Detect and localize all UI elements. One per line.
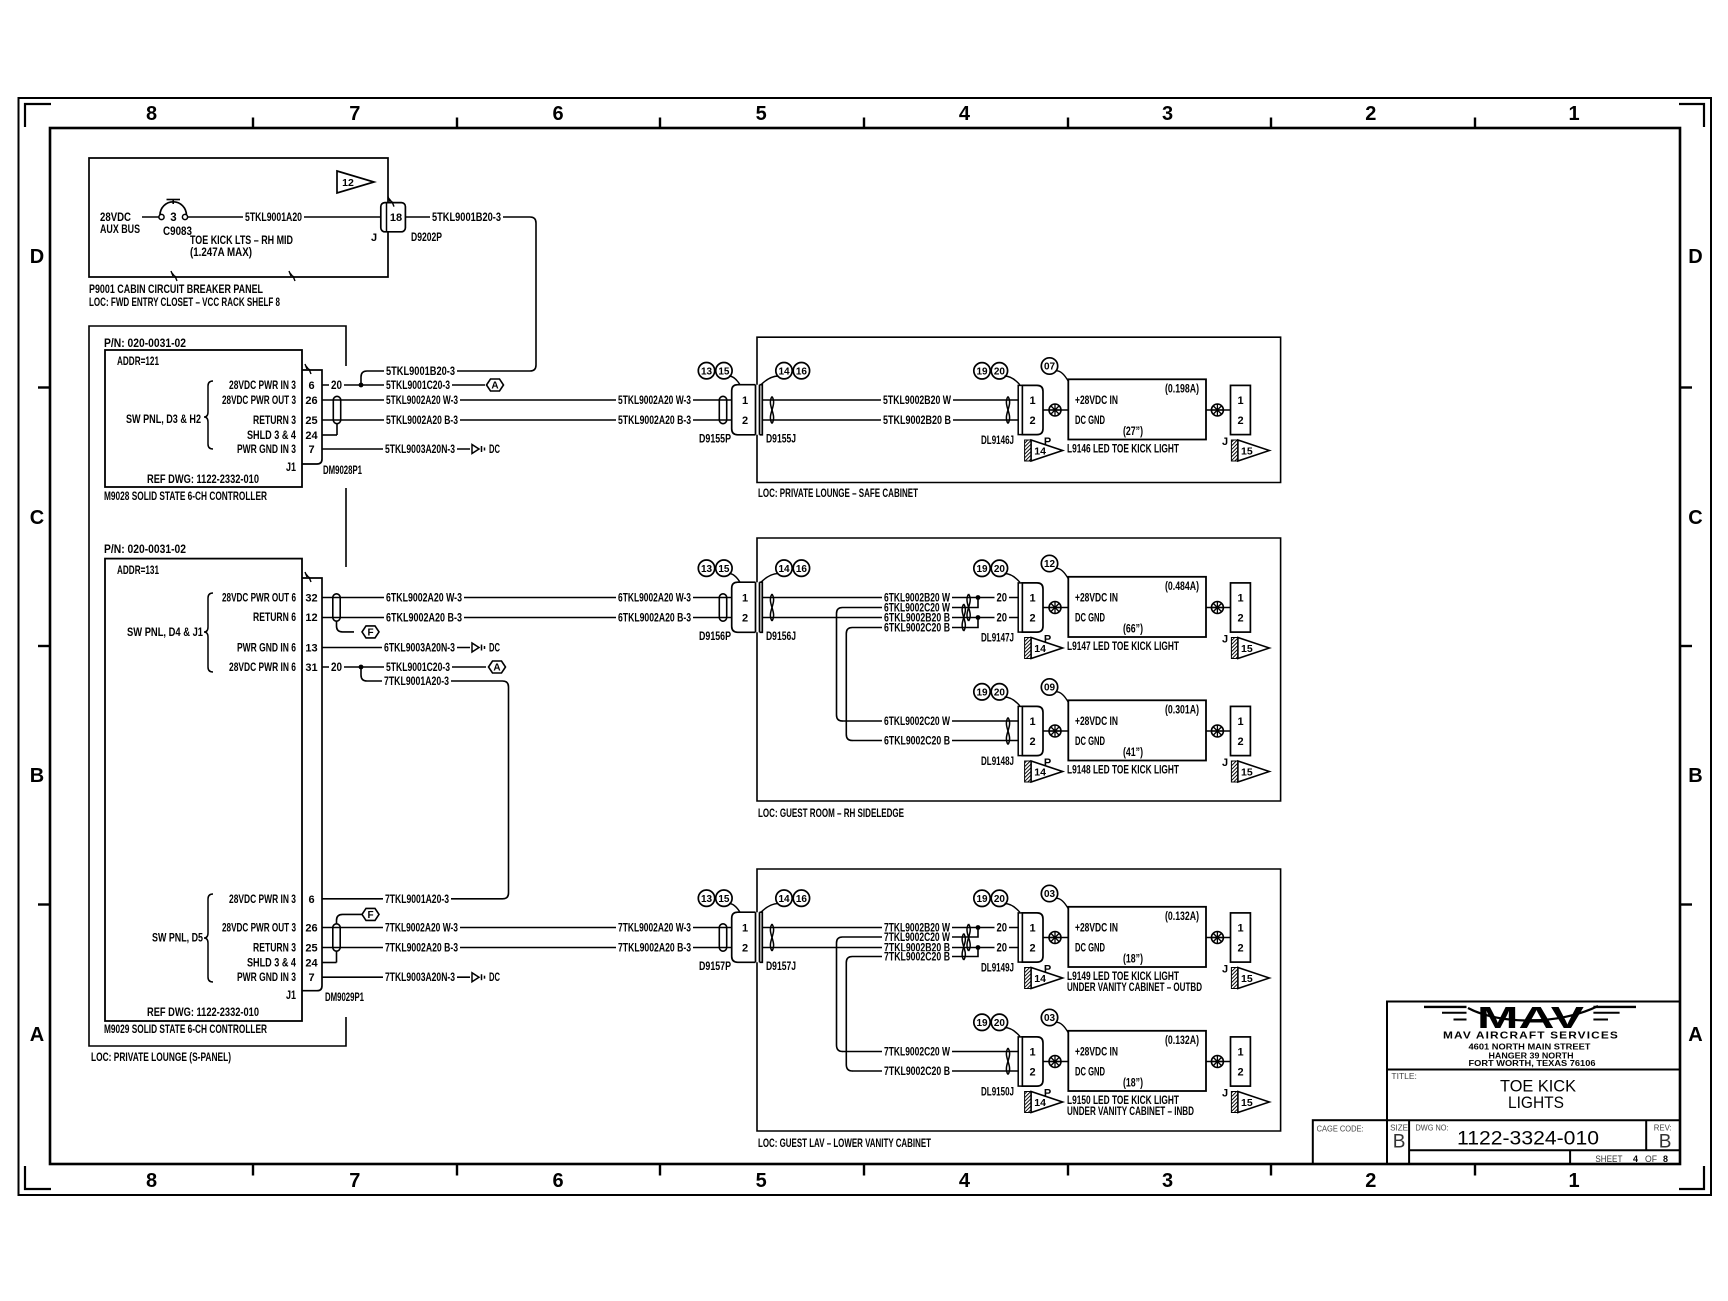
svg-text:SW PNL, D3 & H2: SW PNL, D3 & H2 [126, 414, 201, 426]
svg-text:8: 8 [146, 103, 157, 125]
svg-text:M9028 SOLID STATE 6-CH CONTROL: M9028 SOLID STATE 6-CH CONTROLLER [104, 491, 267, 503]
drawing title TOE KICK LIGHTS [1391, 1071, 1576, 1112]
splice L9150 input [1049, 1056, 1061, 1068]
light name label L9146 [1067, 443, 1179, 455]
svg-text:J: J [1222, 436, 1228, 448]
svg-text:TOE KICK LTS – RH MID: TOE KICK LTS – RH MID [190, 235, 293, 247]
junction node pin31 [359, 665, 364, 670]
svg-text:D9202P: D9202P [411, 232, 442, 244]
wire 5TKL9002B20 B [762, 415, 1018, 427]
svg-text:L9149 LED TOE KICK LIGHT: L9149 LED TOE KICK LIGHT [1067, 971, 1179, 983]
svg-text:13: 13 [701, 366, 713, 377]
connector L9146 J side [1222, 385, 1250, 448]
svg-text:5TKL9001C20-3: 5TKL9001C20-3 [386, 662, 450, 674]
svg-text:20: 20 [994, 894, 1006, 905]
svg-text:5TKL9002A20 W-3: 5TKL9002A20 W-3 [386, 395, 458, 407]
svg-text:LOC: PRIVATE LOUNGE (S-PANEL): LOC: PRIVATE LOUNGE (S-PANEL) [91, 1052, 231, 1064]
svg-text:6: 6 [552, 103, 563, 125]
svg-text:5TKL9002A20 W-3: 5TKL9002A20 W-3 [618, 395, 691, 407]
identification circle 12 L9147 [1041, 555, 1068, 579]
svg-text:PWR GND IN 3: PWR GND IN 3 [237, 444, 296, 456]
svg-text:RETURN 6: RETURN 6 [253, 612, 296, 624]
svg-text:2: 2 [742, 613, 748, 625]
circuit breaker C9083 3A [159, 200, 192, 239]
svg-text:1: 1 [1237, 923, 1243, 935]
svg-text:7TKL9003A20N-3: 7TKL9003A20N-3 [385, 972, 455, 984]
svg-text:12: 12 [305, 612, 317, 624]
wire 7TKL9002B20 W [762, 922, 995, 934]
connector D9202P pin 18 [371, 197, 442, 244]
junction node W pair [976, 595, 981, 600]
shield of pair 6TKL9002A20 [333, 594, 354, 632]
svg-text:REF DWG: 1122-2332-010: REF DWG: 1122-2332-010 [147, 1007, 259, 1019]
svg-text:DL9150J: DL9150J [981, 1087, 1014, 1099]
wire pin31 with gauge 20 [322, 662, 486, 674]
svg-text:20: 20 [331, 662, 342, 674]
svg-text:+28VDC IN: +28VDC IN [1075, 593, 1118, 605]
svg-text:13: 13 [305, 643, 317, 655]
svg-text:19: 19 [976, 366, 988, 377]
svg-text:J: J [371, 232, 377, 244]
wire 5TKL9001B20-3 from D9202P [405, 212, 536, 371]
svg-text:AUX BUS: AUX BUS [100, 224, 140, 236]
wire 6TKL9002B20 W [762, 592, 995, 604]
svg-text:J1: J1 [286, 462, 296, 474]
wire 6TKL9002B20 B [762, 612, 995, 624]
svg-text:20: 20 [994, 564, 1006, 575]
svg-text:1: 1 [1029, 593, 1035, 605]
reference circles 19 20 DL9149J [974, 890, 1020, 912]
svg-text:4: 4 [1633, 1154, 1639, 1165]
shield termination flag 14 L9150 [1025, 1092, 1063, 1113]
controller M9029 D5 signal labels [222, 894, 296, 984]
svg-text:5TKL9002B20 B: 5TKL9002B20 B [883, 415, 951, 427]
svg-text:5TKL9003A20N-3: 5TKL9003A20N-3 [385, 444, 455, 456]
svg-text:6: 6 [552, 1170, 563, 1192]
svg-text:5TKL9002B20 W: 5TKL9002B20 W [883, 395, 951, 407]
svg-text:DC: DC [489, 972, 500, 984]
wire 5TKL9001C20-3 label lower [384, 662, 452, 673]
svg-text:15: 15 [718, 894, 730, 905]
connector D9155P D9155J [699, 385, 796, 446]
svg-text:14: 14 [1034, 973, 1046, 985]
junction node 5TKL9001 nets [359, 383, 364, 388]
svg-text:(0.198A): (0.198A) [1165, 384, 1199, 396]
svg-text:28VDC PWR OUT 6: 28VDC PWR OUT 6 [222, 592, 296, 604]
svg-text:DL9148J: DL9148J [981, 756, 1014, 768]
wire 5TKL9001B20-3 branch up [361, 366, 530, 385]
svg-text:7TKL9002A20 W-3: 7TKL9002A20 W-3 [385, 923, 458, 935]
svg-text:20: 20 [994, 1018, 1006, 1029]
connector DL9148J [981, 706, 1043, 768]
svg-text:20: 20 [997, 943, 1008, 955]
svg-text:1: 1 [1029, 923, 1035, 935]
company name and address [1443, 1030, 1619, 1069]
svg-text:6TKL9002C20 B: 6TKL9002C20 B [884, 623, 950, 635]
wire pin25 5TKL9002A20 B-3 [322, 415, 732, 427]
svg-text:A: A [1688, 1024, 1702, 1046]
svg-text:LOC: PRIVATE LOUNGE – SAFE CAB: LOC: PRIVATE LOUNGE – SAFE CABINET [758, 488, 918, 500]
svg-text:5TKL9001B20-3: 5TKL9001B20-3 [432, 212, 501, 224]
reference circles 13 15 D9155P [698, 363, 740, 385]
svg-text:8: 8 [146, 1170, 157, 1192]
svg-text:1: 1 [1568, 1170, 1579, 1192]
equipment rack enclosure PRIVATE LOUNGE S-PANEL [89, 326, 346, 1046]
svg-text:09: 09 [1044, 683, 1056, 694]
svg-text:5TKL9002A20 B-3: 5TKL9002A20 B-3 [386, 415, 458, 427]
connector D9157P D9157J [699, 912, 796, 973]
svg-text:P/N: 020-0031-02: P/N: 020-0031-02 [104, 338, 186, 350]
LED light L9146 box [1068, 379, 1206, 439]
svg-text:D: D [30, 246, 44, 268]
svg-text:F: F [367, 628, 373, 639]
svg-text:1: 1 [742, 395, 748, 407]
svg-text:LOC: GUEST LAV – LOWER VANITY: LOC: GUEST LAV – LOWER VANITY CABINET [758, 1138, 931, 1150]
svg-text:3: 3 [1162, 1170, 1173, 1192]
svg-text:2: 2 [1029, 943, 1035, 955]
shield termination flag 15 L9147 [1231, 638, 1269, 659]
shield termination flag 15 L9149 [1231, 968, 1269, 989]
svg-text:6: 6 [308, 894, 314, 906]
reference circles 14 16 D9155J [761, 363, 810, 385]
svg-text:D9155J: D9155J [766, 433, 796, 445]
size cell B [1390, 1122, 1408, 1152]
svg-text:16: 16 [796, 564, 808, 575]
svg-text:L9148 LED TOE KICK LIGHT: L9148 LED TOE KICK LIGHT [1067, 764, 1179, 776]
svg-text:14: 14 [778, 564, 790, 575]
svg-text:OF: OF [1645, 1154, 1657, 1164]
reference circles 19 20 DL9148J [974, 684, 1020, 706]
svg-text:DWG NO:: DWG NO: [1416, 1122, 1449, 1132]
svg-text:FORT WORTH, TEXAS 76106: FORT WORTH, TEXAS 76106 [1469, 1059, 1597, 1068]
svg-text:7TKL9001A20-3: 7TKL9001A20-3 [384, 676, 449, 688]
border frame inner [50, 128, 1680, 1164]
light name label L9147 [1067, 641, 1179, 653]
splice L9149 input [1049, 932, 1061, 944]
svg-text:6TKL9003A20N-3: 6TKL9003A20N-3 [384, 643, 455, 655]
svg-text:2: 2 [1029, 613, 1035, 625]
svg-text:16: 16 [796, 894, 808, 905]
wire pin26 5TKL9002A20 W-3 [322, 395, 732, 407]
svg-text:5TKL9001A20: 5TKL9001A20 [245, 212, 302, 224]
light name label L9148 [1067, 764, 1179, 776]
node 28VDC AUX BUS [100, 212, 140, 236]
svg-text:(66”): (66”) [1123, 624, 1143, 636]
svg-text:SW PNL, D4 & J1: SW PNL, D4 & J1 [127, 627, 203, 639]
svg-text:L9146 LED TOE KICK LIGHT: L9146 LED TOE KICK LIGHT [1067, 443, 1179, 455]
splice L9146 input [1049, 404, 1061, 416]
svg-text:20: 20 [997, 613, 1008, 625]
svg-text:7: 7 [349, 1170, 360, 1192]
breaker load description [190, 235, 293, 259]
wire 6TKL9002C20 B riser [846, 618, 978, 735]
junction node B pair lav [976, 945, 981, 950]
svg-text:1: 1 [1237, 716, 1243, 728]
svg-text:19: 19 [976, 564, 988, 575]
DC ground symbol M9028 [472, 444, 500, 456]
LED light L9147 box [1068, 577, 1206, 637]
wire 6TKL9002C20 W to DL9148J [837, 715, 1019, 728]
svg-text:14: 14 [1034, 1097, 1046, 1109]
svg-text:B: B [1688, 765, 1702, 787]
svg-text:SHLD 3 & 4: SHLD 3 & 4 [247, 430, 296, 442]
svg-text:2: 2 [1365, 103, 1376, 125]
svg-text:L9150 LED TOE KICK LIGHT: L9150 LED TOE KICK LIGHT [1067, 1095, 1179, 1107]
svg-text:14: 14 [1034, 767, 1046, 779]
shield termination flag 14 L9147 [1025, 638, 1063, 659]
connector DL9149J [981, 913, 1043, 975]
brace SW PNL D4 and J1 group [127, 593, 213, 672]
connector DM9029P1 labels J1 [286, 990, 364, 1004]
wire pin7 7TKL9003A20N-3 to DC ground [322, 972, 470, 984]
svg-text:6TKL9002A20 B-3: 6TKL9002A20 B-3 [618, 613, 691, 625]
svg-text:14: 14 [1034, 643, 1046, 655]
svg-text:+28VDC IN: +28VDC IN [1075, 395, 1118, 407]
rev cell B [1654, 1122, 1672, 1152]
controller M9029 D4 J1 signal labels [222, 592, 296, 674]
svg-text:12: 12 [1044, 559, 1056, 570]
svg-text:28VDC PWR IN 3: 28VDC PWR IN 3 [229, 894, 296, 906]
svg-text:14: 14 [1034, 446, 1046, 458]
svg-text:16: 16 [796, 366, 808, 377]
svg-text:20: 20 [997, 923, 1008, 935]
reference circles 13 15 D9156P [698, 560, 740, 582]
wire pin7 5TKL9003A20N-3 to DC ground [322, 444, 470, 456]
DC ground symbol M9029 pin7 [472, 972, 500, 984]
identification circle 03 L9149 [1041, 885, 1068, 909]
svg-text:(0.132A): (0.132A) [1165, 1035, 1199, 1047]
svg-text:D9157P: D9157P [699, 961, 731, 973]
wire 7TKL9002B20 B [762, 942, 995, 954]
wire gauge 20 to DL9149J pin2 [995, 942, 1019, 954]
svg-text:J: J [1222, 1088, 1228, 1100]
connector L9148 J side [1222, 706, 1250, 769]
svg-text:19: 19 [976, 894, 988, 905]
svg-text:(27”): (27”) [1123, 426, 1143, 438]
svg-text:1122-3324-010: 1122-3324-010 [1457, 1129, 1599, 1150]
svg-text:31: 31 [305, 662, 317, 674]
wire pin26 7TKL9002A20 W-3 [322, 922, 732, 934]
twisted pairs guest room fan-in [962, 604, 965, 631]
svg-text:DL9146J: DL9146J [981, 435, 1014, 447]
svg-text:A: A [491, 381, 498, 392]
svg-text:2: 2 [1029, 415, 1035, 427]
svg-text:20: 20 [994, 366, 1006, 377]
reference circles 13 15 D9157P [698, 890, 740, 912]
connector DM9028P1 body [302, 364, 322, 464]
connector D9156P D9156J [699, 582, 796, 643]
svg-text:19: 19 [976, 1018, 988, 1029]
svg-text:TITLE:: TITLE: [1391, 1071, 1417, 1081]
wire 5TKL9002B20 W [762, 395, 1018, 407]
splice L9146 output [1211, 404, 1223, 416]
svg-text:03: 03 [1044, 1013, 1056, 1024]
svg-text:26: 26 [305, 395, 317, 407]
svg-text:7TKL9001A20-3: 7TKL9001A20-3 [385, 894, 449, 906]
wire 5TKL9001C20-3 label [384, 380, 452, 391]
svg-text:24: 24 [305, 958, 318, 970]
svg-text:2: 2 [1237, 1067, 1243, 1079]
svg-text:15: 15 [1241, 973, 1253, 985]
twisted pair D9156J side [770, 594, 773, 621]
svg-text:D9156J: D9156J [766, 631, 796, 643]
wire gauge 20 to DL9147J pin2 [995, 612, 1019, 624]
svg-text:C: C [30, 507, 44, 529]
svg-text:7: 7 [308, 444, 314, 456]
splice L9148 output [1211, 725, 1223, 737]
connector L9149 J side [1222, 913, 1250, 976]
svg-text:2: 2 [742, 943, 748, 955]
svg-text:2: 2 [1029, 1067, 1035, 1079]
svg-text:DC: DC [489, 643, 500, 655]
svg-text:7TKL9002C20 B: 7TKL9002C20 B [884, 1066, 950, 1078]
svg-text:RETURN 3: RETURN 3 [253, 943, 296, 955]
svg-text:REF DWG: 1122-2332-010: REF DWG: 1122-2332-010 [147, 474, 259, 486]
DC ground symbol M9029 [472, 643, 500, 655]
svg-text:SHLD 3 & 4: SHLD 3 & 4 [247, 958, 296, 970]
off-sheet flag A upper [487, 379, 504, 391]
controller M9028 signal name labels [222, 380, 296, 456]
twisted pair D9157J side [770, 924, 773, 951]
wire 6TKL9002C20 B to DL9148J [846, 735, 1018, 748]
connector L9150 J side [1222, 1037, 1250, 1100]
svg-text:(0.132A): (0.132A) [1165, 911, 1199, 923]
svg-text:19: 19 [976, 687, 988, 698]
location box GUEST ROOM RH SIDELEDGE [757, 538, 1281, 801]
svg-text:28VDC PWR OUT 3: 28VDC PWR OUT 3 [222, 923, 296, 935]
svg-text:13: 13 [701, 894, 713, 905]
LED light L9148 box [1068, 700, 1206, 760]
svg-text:12: 12 [342, 177, 354, 189]
company logo MAV [1424, 1000, 1636, 1035]
svg-text:LIGHTS: LIGHTS [1508, 1093, 1564, 1112]
svg-text:5: 5 [756, 1170, 767, 1192]
reference circles 19 20 DL9146J [974, 363, 1020, 385]
shield termination flag 14 L9149 [1025, 968, 1063, 989]
svg-text:7TKL9002A20 B-3: 7TKL9002A20 B-3 [385, 943, 458, 955]
svg-text:D9157J: D9157J [766, 961, 796, 973]
svg-text:5TKL9002A20 B-3: 5TKL9002A20 B-3 [618, 415, 691, 427]
svg-text:7: 7 [349, 103, 360, 125]
svg-text:8: 8 [1663, 1154, 1668, 1165]
wire L9149 output with splice [1206, 937, 1231, 939]
svg-text:5: 5 [756, 103, 767, 125]
twisted pair before DL9146J [1006, 397, 1009, 424]
svg-text:15: 15 [1241, 643, 1253, 655]
svg-text:7TKL9002C20 B: 7TKL9002C20 B [884, 952, 950, 964]
svg-text:1: 1 [1568, 103, 1579, 125]
wire 6TKL9002C20 W riser [837, 598, 979, 716]
svg-text:14: 14 [778, 366, 790, 377]
svg-text:18: 18 [390, 212, 402, 224]
svg-text:03: 03 [1044, 889, 1056, 900]
svg-text:5TKL9001C20-3: 5TKL9001C20-3 [386, 380, 450, 392]
svg-text:28VDC PWR IN 6: 28VDC PWR IN 6 [229, 662, 296, 674]
wire L9150 input with splice [1043, 1061, 1068, 1063]
wire 7TKL9002C20 W riser [837, 928, 979, 1046]
circuit breaker panel P9001 box [89, 158, 388, 281]
brace SW PNL D3 and H2 group [126, 381, 213, 449]
wire L9148 input with splice [1043, 730, 1068, 732]
svg-text:DC GND: DC GND [1075, 736, 1105, 748]
wire 5TKL9001A20 [188, 212, 383, 224]
controller M9029 box [105, 559, 302, 1021]
svg-text:ADDR=131: ADDR=131 [117, 565, 159, 577]
svg-text:4601 NORTH MAIN STREET: 4601 NORTH MAIN STREET [1469, 1043, 1591, 1052]
wire 7TKL9002C20 B to DL9150J [846, 1065, 1018, 1079]
svg-text:1: 1 [1237, 1047, 1243, 1059]
svg-text:LOC: FWD ENTRY CLOSET – VCC RA: LOC: FWD ENTRY CLOSET – VCC RACK SHELF 8 [89, 297, 280, 309]
svg-text:25: 25 [305, 415, 317, 427]
svg-text:7TKL9002C20 W: 7TKL9002C20 W [884, 1047, 950, 1059]
sheet-reference flag 12 [337, 171, 374, 193]
svg-text:D9155P: D9155P [699, 433, 731, 445]
connector L9147 J side [1222, 583, 1250, 646]
panel name label P9001 [89, 284, 280, 309]
shield flag F lower [337, 908, 380, 924]
splice L9150 output [1211, 1056, 1223, 1068]
svg-text:CAGE CODE:: CAGE CODE: [1317, 1124, 1364, 1134]
shield termination flag 15 L9146 [1231, 440, 1269, 461]
svg-text:B: B [1393, 1131, 1406, 1152]
svg-text:J: J [1222, 757, 1228, 769]
svg-text:5TKL9001B20-3: 5TKL9001B20-3 [386, 366, 455, 378]
svg-text:A: A [493, 663, 500, 674]
shield capsule D9156P side [719, 594, 726, 621]
title block frame [1313, 1002, 1680, 1165]
wire 7TKL9001A20-3 jumper pin31 to pin6 [322, 667, 509, 906]
svg-text:2: 2 [1365, 1170, 1376, 1192]
reference circles 14 16 D9156J [761, 560, 810, 582]
svg-text:(41”): (41”) [1123, 747, 1143, 759]
svg-text:DM9029P1: DM9029P1 [325, 992, 364, 1004]
svg-text:2: 2 [1237, 736, 1243, 748]
svg-text:UNDER VANITY CABINET – INBD: UNDER VANITY CABINET – INBD [1067, 1106, 1194, 1118]
svg-text:15: 15 [1241, 446, 1253, 458]
svg-text:D9156P: D9156P [699, 631, 731, 643]
wire L9149 input with splice [1043, 937, 1068, 939]
shield termination flag 14 L9148 [1025, 761, 1063, 782]
svg-text:20: 20 [997, 593, 1008, 605]
svg-text:A: A [30, 1024, 44, 1046]
svg-text:07: 07 [1044, 362, 1056, 373]
connector DM9028P1 labels J1 [286, 462, 362, 477]
off-sheet flag A lower [489, 661, 506, 673]
svg-text:1: 1 [1237, 395, 1243, 407]
svg-text:(1.247A MAX): (1.247A MAX) [190, 247, 252, 259]
wire pin32 6TKL9002A20 W-3 [322, 592, 732, 604]
svg-text:(0.301A): (0.301A) [1165, 705, 1199, 717]
light name label L9150 [1067, 1095, 1194, 1118]
wire 7TKL9002C20 B riser [846, 948, 978, 1065]
svg-text:M9029 SOLID STATE 6-CH CONTROL: M9029 SOLID STATE 6-CH CONTROLLER [104, 1024, 267, 1036]
wire pin12 6TKL9002A20 B-3 [322, 612, 732, 624]
svg-text:7TKL9002A20 B-3: 7TKL9002A20 B-3 [618, 943, 691, 955]
shield termination flag 14 L9146 [1025, 440, 1063, 461]
wire pin25 7TKL9002A20 B-3 [322, 942, 732, 954]
shield termination flag 15 L9150 [1231, 1092, 1269, 1113]
location box PRIVATE LOUNGE SAFE CABINET [757, 337, 1281, 482]
svg-text:+28VDC IN: +28VDC IN [1075, 716, 1118, 728]
svg-text:UNDER VANITY CABINET – OUTBD: UNDER VANITY CABINET – OUTBD [1067, 982, 1202, 994]
svg-text:1: 1 [1029, 1047, 1035, 1059]
splice L9149 output [1211, 932, 1223, 944]
wire gauge 20 to DL9147J pin1 [995, 592, 1019, 604]
svg-text:6TKL9002C20 B: 6TKL9002C20 B [884, 736, 950, 748]
sheet number [1595, 1154, 1668, 1165]
svg-text:6: 6 [308, 380, 314, 392]
svg-text:1: 1 [742, 923, 748, 935]
